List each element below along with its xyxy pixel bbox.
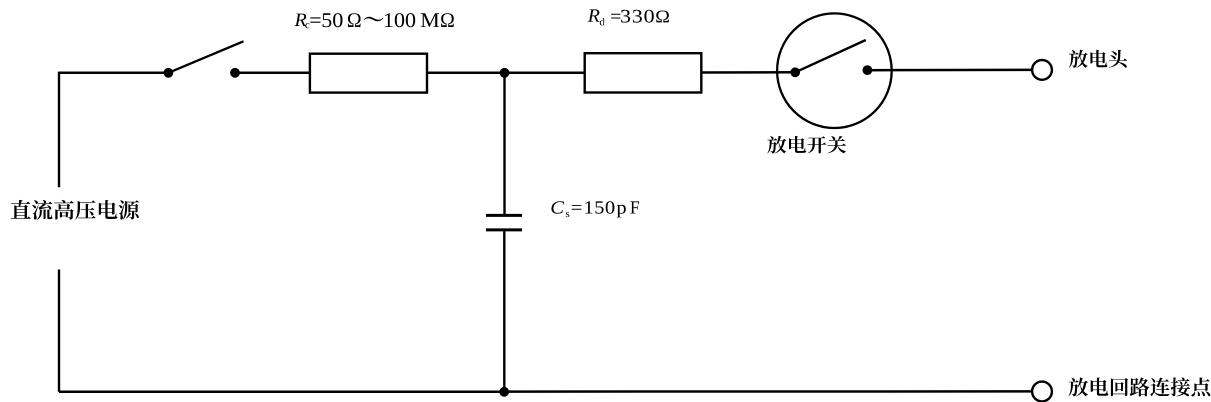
charge switch contact dot (right) <box>230 68 240 78</box>
wire: discharge switch to discharge tip terminal <box>867 69 1032 72</box>
wire: resistor Rd to discharge switch left contact <box>701 71 795 74</box>
wire: top horizontal from HV source to charge switch <box>59 72 168 75</box>
label Cs=150 pF <box>551 201 639 217</box>
node A junction dot (top of Cs) <box>500 68 510 78</box>
label Rc=50 ohm to 100 Mohm <box>294 13 453 28</box>
discharge return terminal (open circle) <box>1032 382 1052 402</box>
wire: node A to resistor Rd <box>505 72 585 75</box>
capacitor Cs: wire from bottom plate to bottom node <box>503 231 505 391</box>
wire: resistor Rc to node A <box>427 72 505 75</box>
discharge switch enclosure circle <box>777 13 892 128</box>
wire: bottom horizontal from HV source to bottom node <box>59 391 504 394</box>
label DC high-voltage source (zhiliu gaoya dianyuan) <box>11 200 139 220</box>
bottom node junction dot <box>499 387 509 397</box>
capacitor Cs bottom plate <box>486 228 522 231</box>
charge switch arm (open blade) <box>168 41 243 73</box>
capacitor Cs: wire from node A down to top plate <box>503 73 505 214</box>
charge switch contact dot (left) <box>164 68 174 78</box>
capacitor Cs top plate <box>486 214 522 217</box>
discharge switch arm (open blade) <box>795 40 866 72</box>
resistor Rc body <box>310 54 427 93</box>
discharge switch contact dot (left) <box>790 67 800 77</box>
label discharge tip (fangdian tou) <box>1069 50 1127 68</box>
wire: charge switch to resistor Rc <box>235 72 310 75</box>
discharge tip terminal (open circle) <box>1032 60 1052 80</box>
wire: bottom node to discharge return terminal <box>504 390 1032 393</box>
label discharge switch (fangdian kaiguan) <box>767 136 846 154</box>
resistor Rd body <box>585 53 702 92</box>
label discharge return connection point (fangdian huilu lianjiedian) <box>1069 378 1211 397</box>
wire: left vertical upper segment from HV source <box>58 72 60 188</box>
discharge switch contact dot (right) <box>863 65 873 75</box>
wire: left vertical lower segment from HV source <box>58 270 60 392</box>
label Rd=330 ohm <box>588 9 669 25</box>
